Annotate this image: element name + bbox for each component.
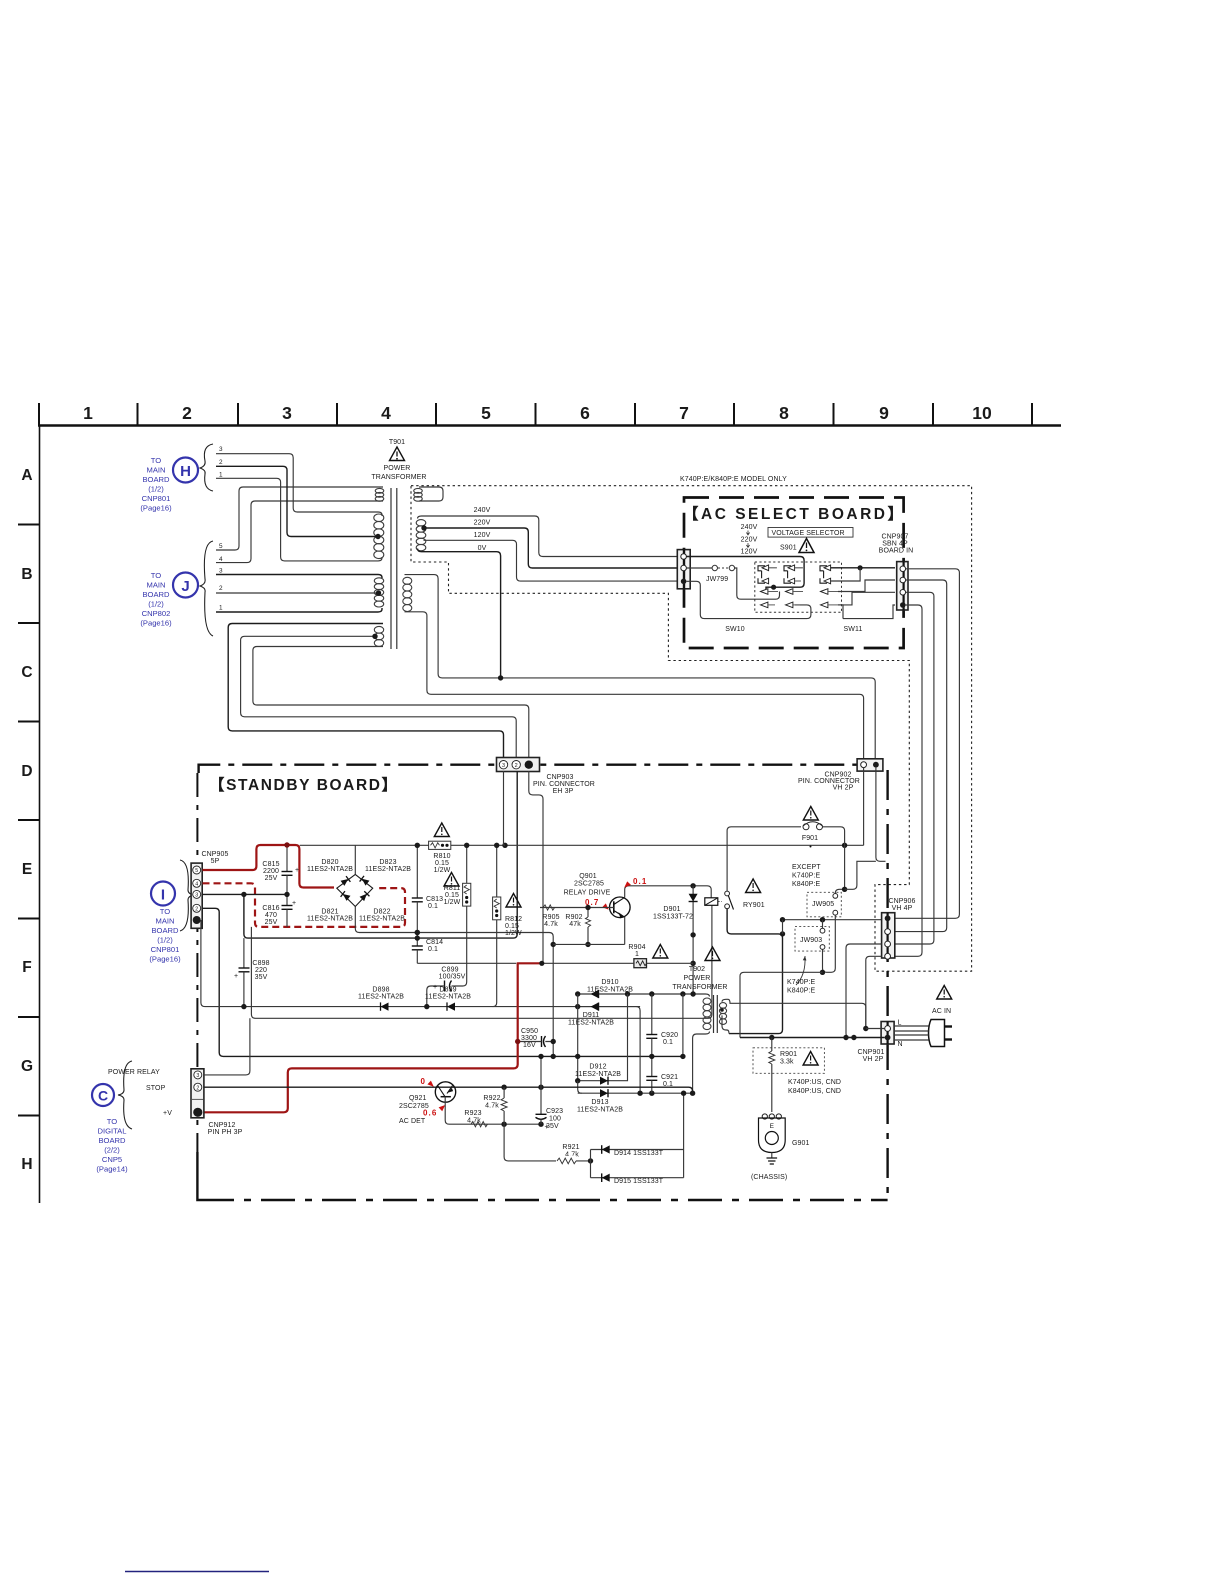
svg-text:(1/2): (1/2)	[148, 485, 164, 494]
svg-text:JW903: JW903	[800, 937, 822, 944]
svg-text:SW11: SW11	[844, 626, 863, 633]
left border line	[39, 425, 41, 1203]
D898 diode	[358, 987, 404, 1011]
wire 972.3 left and down to N line	[740, 972, 827, 1037]
svg-text:4: 4	[381, 403, 391, 423]
gray wire y=1018.3 from C816 dash area	[251, 905, 712, 1018]
C815 capacitor	[262, 842, 299, 894]
CNP906 pin4 wire to L line	[866, 956, 882, 1028]
JW903 jumper	[795, 927, 829, 952]
diode bus vertical	[577, 994, 579, 1081]
AC IN plug	[894, 986, 952, 1047]
L wire CNP901 to T902	[866, 1028, 885, 1030]
svg-text:11ES2-NTA2B: 11ES2-NTA2B	[359, 916, 405, 923]
svg-text:(2/2): (2/2)	[104, 1146, 120, 1155]
svg-text:BOARD: BOARD	[142, 475, 170, 484]
svg-text:F901: F901	[802, 835, 818, 842]
svg-text:120V: 120V	[474, 532, 491, 539]
rail y=1006.6 right segment to D911	[205, 1006, 640, 1008]
AC SELECT BOARD box	[684, 498, 904, 649]
red dashed wire CNP905 pin4 to bridge right	[203, 883, 406, 927]
svg-text:DIGITAL: DIGITAL	[98, 1127, 127, 1136]
svg-text:PIN. CONNECTOR: PIN. CONNECTOR	[533, 781, 595, 788]
svg-text:D899: D899	[439, 987, 456, 994]
wire pin3 down-right to SW10 row2	[687, 581, 811, 618]
svg-text:220V: 220V	[741, 537, 758, 544]
svg-text:0.1: 0.1	[663, 1039, 673, 1046]
svg-text:R902: R902	[565, 914, 582, 921]
svg-text:VH 2P: VH 2P	[833, 785, 854, 792]
AC board left edge connector	[677, 550, 690, 589]
Q921 transistor	[399, 1082, 456, 1110]
svg-text:A: A	[21, 467, 32, 484]
svg-text:3: 3	[282, 403, 292, 423]
svg-text:TO: TO	[107, 1117, 118, 1126]
svg-text:E: E	[22, 861, 32, 878]
svg-text:(Page16): (Page16)	[140, 619, 172, 628]
svg-text:100/35V: 100/35V	[439, 974, 466, 981]
svg-text:E: E	[770, 1123, 775, 1130]
svg-text:3.3k: 3.3k	[780, 1059, 794, 1066]
svg-text:220V: 220V	[474, 520, 491, 527]
svg-text:2: 2	[219, 459, 223, 466]
svg-text:R901: R901	[780, 1051, 797, 1058]
svg-text:K840P:E: K840P:E	[792, 881, 821, 888]
svg-text:1: 1	[219, 472, 223, 479]
CNP906 pin3 wire to N line	[846, 944, 882, 1038]
T901 winding W2 (6 turns)	[374, 514, 384, 522]
svg-text:JW905: JW905	[812, 901, 834, 908]
svg-text:CNP5: CNP5	[102, 1155, 122, 1164]
CNP905 pin3 wire	[203, 893, 288, 895]
svg-text:AC DET: AC DET	[399, 1118, 426, 1125]
svg-text:T902: T902	[689, 966, 705, 973]
220V wire	[423, 528, 677, 568]
svg-text:R810: R810	[433, 853, 450, 860]
svg-text:2: 2	[195, 907, 198, 913]
svg-text:D821: D821	[321, 909, 338, 916]
svg-text:MAIN: MAIN	[147, 581, 166, 590]
svg-text:【STANDBY BOARD】: 【STANDBY BOARD】	[209, 776, 399, 794]
svg-text:C: C	[98, 1088, 108, 1104]
svg-text:SW10: SW10	[725, 626, 744, 633]
svg-text:11ES2-NTA2B: 11ES2-NTA2B	[575, 1071, 621, 1078]
svg-text:1/2W: 1/2W	[505, 930, 522, 937]
voltage selector labels 240/220/120	[741, 524, 758, 556]
svg-text:0.6: 0.6	[423, 1109, 437, 1118]
node H connector label (blue)	[140, 444, 213, 513]
svg-text:Q901: Q901	[579, 873, 597, 880]
SW10 pole 1	[758, 565, 777, 584]
K740P model only outer dotted box	[411, 486, 972, 972]
R812 fusible resistor	[493, 894, 523, 938]
T902 right coil bottom lead	[722, 1015, 729, 1033]
W4 center tap to CNP903 pin2	[241, 636, 517, 758]
svg-text:S901: S901	[780, 545, 797, 552]
wire y=919.7 dot to CNP906 pin1	[783, 919, 888, 921]
svg-text:G: G	[21, 1058, 33, 1075]
svg-text:CNP903: CNP903	[546, 774, 573, 781]
Q901 transistor	[564, 873, 712, 944]
svg-text:CNP912: CNP912	[208, 1122, 235, 1129]
wire JW799 down to SW10 row1	[735, 568, 780, 599]
svg-text:3: 3	[195, 893, 198, 899]
STANDBY BOARD border	[199, 765, 857, 773]
svg-text:MAIN: MAIN	[156, 917, 175, 926]
svg-text:11ES2-NTA2B: 11ES2-NTA2B	[425, 994, 471, 1001]
svg-text:POWER: POWER	[384, 465, 411, 472]
svg-text:AC IN: AC IN	[932, 1008, 951, 1015]
svg-text:+: +	[433, 984, 437, 991]
CNP905 pin2 wire down-right	[203, 908, 683, 1056]
svg-text:D901: D901	[663, 906, 680, 913]
svg-text:6: 6	[580, 403, 590, 423]
node J connector label (blue)	[140, 541, 213, 636]
svg-text:H: H	[21, 1156, 32, 1173]
CNP903 pin1 tail down	[529, 771, 543, 963]
svg-text:TO: TO	[151, 456, 162, 465]
svg-text:N: N	[898, 1041, 903, 1048]
N wire CNP901 left	[740, 1037, 885, 1039]
G901 chassis ground lug	[751, 1090, 810, 1181]
SW10 pole 2	[784, 565, 803, 584]
svg-text:C923: C923	[546, 1108, 563, 1115]
ruler numbers	[83, 403, 992, 423]
svg-text:SBN 4P: SBN 4P	[882, 541, 908, 548]
diode D823 top-right	[360, 876, 370, 886]
svg-text:(Page14): (Page14)	[96, 1165, 128, 1174]
svg-text:BOARD: BOARD	[98, 1136, 126, 1145]
R811 fusible resistor	[444, 873, 471, 907]
CNP901 connector	[881, 1022, 894, 1045]
svg-text:D: D	[21, 763, 32, 780]
C813 capacitor	[412, 843, 443, 939]
0V wire	[418, 549, 501, 678]
RY901 relay coil	[705, 879, 765, 910]
svg-text:VH 4P: VH 4P	[892, 905, 913, 912]
D912 diode row	[575, 994, 628, 1085]
svg-text:11ES2-NTA2B: 11ES2-NTA2B	[307, 916, 353, 923]
svg-text:(Page16): (Page16)	[149, 955, 181, 964]
red +V wire down-left to CNP912	[204, 963, 518, 1113]
svg-text:+: +	[234, 973, 238, 980]
CNP906 connector	[882, 913, 895, 958]
W1 top lead	[216, 487, 383, 550]
svg-text:POWER RELAY: POWER RELAY	[108, 1069, 160, 1076]
svg-text:CNP901: CNP901	[857, 1049, 884, 1056]
base wire with R905	[540, 907, 614, 909]
CNP903 connector	[497, 758, 540, 772]
left row ticks	[18, 525, 39, 1116]
wire H pin2 to W2 center tap	[216, 466, 377, 536]
svg-text:2: 2	[515, 763, 518, 769]
SW11 to CNP907 pin2/pin3 links	[838, 580, 895, 592]
svg-text:Q921: Q921	[409, 1095, 427, 1102]
svg-text:【AC SELECT BOARD】: 【AC SELECT BOARD】	[683, 505, 905, 523]
svg-text:CNP907: CNP907	[881, 534, 908, 541]
CNP907 pin wires to right verticals	[895, 569, 960, 919]
svg-text:K740P:E: K740P:E	[787, 979, 816, 986]
D911 diode row	[568, 1003, 640, 1094]
T901 winding W1 (primary top, 3 turns)	[375, 488, 384, 493]
R812 connections	[493, 845, 497, 1006]
svg-text:C814: C814	[426, 939, 443, 946]
svg-text:1: 1	[83, 403, 93, 423]
svg-text:G901: G901	[792, 1140, 810, 1147]
ruler top line	[38, 424, 1061, 427]
svg-text:D820: D820	[321, 859, 338, 866]
wire J pin2 to W3 tap	[216, 592, 379, 594]
C920 capacitor	[646, 994, 678, 1056]
vertical 683.6 joining D913 row	[683, 1093, 685, 1178]
SW11 pole	[820, 565, 831, 584]
D913 diode row	[577, 1081, 695, 1114]
svg-text:VH 2P: VH 2P	[863, 1056, 884, 1063]
wire H pin1 to W2 bottom	[216, 478, 382, 561]
svg-text:C816: C816	[262, 905, 279, 912]
120V wire	[424, 540, 678, 581]
svg-text:2200: 2200	[263, 868, 279, 875]
vertical from emitter row down to R921 row	[504, 1124, 590, 1161]
svg-text:4.7k: 4.7k	[485, 1103, 499, 1110]
STOP wire pin2 across to D913 junction	[204, 1087, 693, 1093]
W7 bottom lead to CNP902 pin1 (wire B)	[405, 612, 864, 758]
POWER RELAY wire pin3	[204, 1018, 250, 1075]
ruler ticks	[39, 403, 1032, 425]
R923 resistor in emitter row	[471, 1122, 487, 1127]
svg-text:STOP: STOP	[146, 1085, 166, 1092]
node C connector label (blue)	[92, 1061, 132, 1174]
svg-text:2SC2785: 2SC2785	[574, 881, 604, 888]
link from junction right to CNP902 tail	[845, 861, 876, 889]
svg-text:5: 5	[195, 868, 198, 874]
svg-text:25V: 25V	[265, 919, 278, 926]
CNP907 connector	[897, 562, 908, 610]
svg-text:CNP906: CNP906	[888, 898, 915, 905]
diode D822 bottom-right	[359, 891, 369, 901]
svg-text:C815: C815	[262, 861, 279, 868]
W7 top lead to CNP902 pin2 (wire A)	[405, 575, 876, 758]
CNP903 pin3 tail down	[504, 771, 506, 845]
svg-text:7: 7	[679, 403, 689, 423]
svg-text:16V: 16V	[523, 1042, 536, 1049]
svg-text:5P: 5P	[211, 858, 220, 865]
svg-text:F: F	[22, 959, 31, 976]
wire J pin3 to W3 top	[216, 575, 382, 579]
svg-text:PIN PH 3P: PIN PH 3P	[208, 1129, 243, 1136]
svg-text:240V: 240V	[474, 507, 491, 514]
svg-text:11ES2-NTA2B: 11ES2-NTA2B	[307, 866, 353, 873]
wire y=963.3	[417, 962, 516, 964]
svg-text:C921: C921	[661, 1074, 678, 1081]
svg-text:+V: +V	[163, 1110, 172, 1117]
svg-text:R812: R812	[505, 916, 522, 923]
svg-text:5: 5	[481, 403, 491, 423]
W4 top lead to CNP903 pin3	[228, 624, 503, 759]
CNP902 pin tails below	[863, 768, 865, 846]
wire J pin1 to W3 bottom	[216, 608, 382, 612]
svg-text:0: 0	[421, 1077, 427, 1086]
svg-text:C813: C813	[426, 896, 443, 903]
svg-text:1SS133T-72: 1SS133T-72	[653, 914, 693, 921]
svg-text:TO: TO	[151, 571, 162, 580]
R811 connections	[455, 845, 467, 986]
svg-text:C898: C898	[252, 960, 269, 967]
svg-text:RY901: RY901	[743, 902, 765, 909]
red wire CNP905 pin5 to bridge left	[203, 845, 335, 888]
svg-text:R921: R921	[562, 1144, 579, 1151]
SW contact triangles row 2	[761, 602, 828, 608]
svg-text:11ES2-NTA2B: 11ES2-NTA2B	[577, 1107, 623, 1114]
T902 transformer	[672, 947, 727, 1033]
svg-text:+: +	[545, 1124, 549, 1131]
CNP912 connector	[191, 1069, 204, 1118]
svg-text:2: 2	[196, 1085, 199, 1091]
emitter rail y=944.4	[553, 943, 625, 945]
relay switch bottom down to T902	[727, 909, 782, 1034]
svg-text:4: 4	[195, 882, 198, 888]
svg-text:(1/2): (1/2)	[148, 600, 164, 609]
CNP902 connector	[857, 759, 883, 771]
T901 winding W3 (5 turns)	[374, 578, 383, 584]
svg-text:D915 1SS133T: D915 1SS133T	[614, 1178, 664, 1185]
T902 right coil top lead to L line	[722, 999, 866, 1028]
svg-text:R922: R922	[483, 1095, 500, 1102]
svg-text:35V: 35V	[255, 974, 268, 981]
JW905 jumper	[807, 892, 841, 917]
svg-text:R905: R905	[542, 914, 559, 921]
JW903 leader arrow to K740P:E label	[796, 956, 805, 985]
vertical from relay coil junction (782.5) up through 919.7	[782, 920, 784, 934]
T901 winding W5 (secondary top, 3 turns)	[414, 488, 423, 493]
C921 capacitor	[646, 1054, 678, 1093]
svg-text:JW799: JW799	[706, 576, 728, 583]
svg-text:C920: C920	[661, 1032, 678, 1039]
svg-text:0.1: 0.1	[633, 877, 647, 886]
svg-text:C899: C899	[441, 967, 458, 974]
wire pin2 to JW799	[687, 567, 713, 569]
JW799 jumper	[712, 565, 717, 570]
R922 resistor vertical	[483, 1087, 507, 1124]
svg-text:120V: 120V	[741, 549, 758, 556]
svg-text:9: 9	[879, 403, 889, 423]
svg-text:D898: D898	[372, 987, 389, 994]
R810 fusible resistor	[429, 823, 451, 874]
svg-text:D912: D912	[589, 1064, 606, 1071]
svg-text:R904: R904	[628, 944, 645, 951]
svg-text:BOARD: BOARD	[151, 926, 179, 935]
bridge - rail down	[355, 907, 555, 1057]
svg-text:+: +	[295, 867, 299, 874]
svg-text:0V: 0V	[478, 545, 487, 552]
svg-text:11ES2-NTA2B: 11ES2-NTA2B	[365, 866, 411, 873]
svg-text:11ES2-NTA2B: 11ES2-NTA2B	[568, 1020, 614, 1027]
svg-text:1/2W: 1/2W	[434, 867, 451, 874]
svg-text:D914 1SS133T: D914 1SS133T	[614, 1150, 664, 1157]
T901 winding W4 (3.5 turns)	[374, 626, 383, 633]
bottom-left blue underline	[125, 1571, 269, 1573]
svg-text:(Page16): (Page16)	[140, 504, 172, 513]
W4 bottom lead to CNP903 pin1	[253, 647, 529, 759]
svg-text:220: 220	[255, 967, 267, 974]
svg-text:T901: T901	[389, 439, 405, 446]
svg-text:TO: TO	[160, 907, 171, 916]
svg-text:RELAY DRIVE: RELAY DRIVE	[564, 890, 611, 897]
C950 electrolytic	[515, 1028, 556, 1049]
svg-text:4.7k: 4.7k	[544, 921, 558, 928]
svg-text:K840P:E: K840P:E	[787, 988, 816, 995]
svg-text:H: H	[180, 463, 191, 480]
svg-text:25V: 25V	[265, 875, 278, 882]
D915 diode	[591, 1173, 684, 1185]
svg-text:CNP905: CNP905	[201, 851, 228, 858]
svg-text:3: 3	[502, 763, 505, 769]
svg-text:J: J	[181, 578, 189, 595]
bridge rectifier diamond	[337, 874, 373, 906]
svg-text:2: 2	[182, 403, 192, 423]
svg-text:3: 3	[219, 446, 223, 453]
svg-text:1: 1	[219, 605, 223, 612]
diode D820 top-left	[340, 876, 350, 886]
C899 electrolytic	[424, 967, 466, 1010]
svg-text:4.7k: 4.7k	[467, 1118, 481, 1125]
svg-text:K740P:US, CND: K740P:US, CND	[788, 1079, 841, 1086]
T902 left coil top lead to D910 row	[693, 994, 709, 997]
svg-text:(1/2): (1/2)	[157, 936, 173, 945]
svg-text:470: 470	[265, 912, 277, 919]
svg-text:11ES2-NTA2B: 11ES2-NTA2B	[358, 994, 404, 1001]
svg-text:MAIN: MAIN	[147, 466, 166, 475]
svg-text:K740P:E: K740P:E	[792, 873, 821, 880]
svg-text:(CHASSIS): (CHASSIS)	[751, 1174, 787, 1181]
svg-text:1: 1	[635, 951, 639, 958]
W1 bottom lead	[216, 501, 383, 563]
R902 resistor vertical	[565, 905, 590, 947]
240V wire	[418, 516, 678, 557]
VOLTAGE SELECTOR boxed label	[768, 528, 853, 538]
svg-text:0.15: 0.15	[445, 892, 459, 899]
Q921 emitter stem and row	[445, 1097, 541, 1125]
JW905 top link to F901 junction	[835, 889, 844, 893]
svg-text:4: 4	[219, 556, 223, 563]
svg-text:C950: C950	[521, 1028, 538, 1035]
D914 diode	[591, 1145, 684, 1157]
pin3 branch down to 938 rail	[244, 771, 517, 938]
diode D821 bottom-left	[341, 891, 351, 901]
svg-text:0.1: 0.1	[428, 946, 438, 953]
svg-text:D913: D913	[591, 1099, 608, 1106]
svg-text:BOARD IN: BOARD IN	[879, 548, 914, 555]
svg-text:K740P:E/K840P:E MODEL ONLY: K740P:E/K840P:E MODEL ONLY	[680, 476, 787, 483]
row letters	[21, 467, 33, 1173]
C898 capacitor	[234, 938, 270, 1007]
F901 right wire to junction	[823, 827, 845, 890]
svg-text:I: I	[161, 887, 165, 904]
SW11 right link to CNP907 pin1	[831, 567, 895, 569]
R904 resistor	[628, 944, 667, 968]
C923 electrolytic	[536, 1054, 564, 1131]
svg-text:EXCEPT: EXCEPT	[792, 864, 821, 871]
relay switch top to F901	[727, 827, 801, 891]
bridge + rail up	[354, 845, 356, 874]
svg-text:D823: D823	[379, 859, 396, 866]
T901 winding W7 (5 turns)	[403, 577, 412, 584]
svg-text:3: 3	[219, 568, 223, 575]
wire H pin3 to W2 top	[216, 454, 382, 516]
svg-text:100: 100	[549, 1116, 561, 1123]
T901 winding W6 (240V group, 5 turns)	[416, 520, 426, 526]
svg-text:POWER: POWER	[684, 975, 711, 982]
